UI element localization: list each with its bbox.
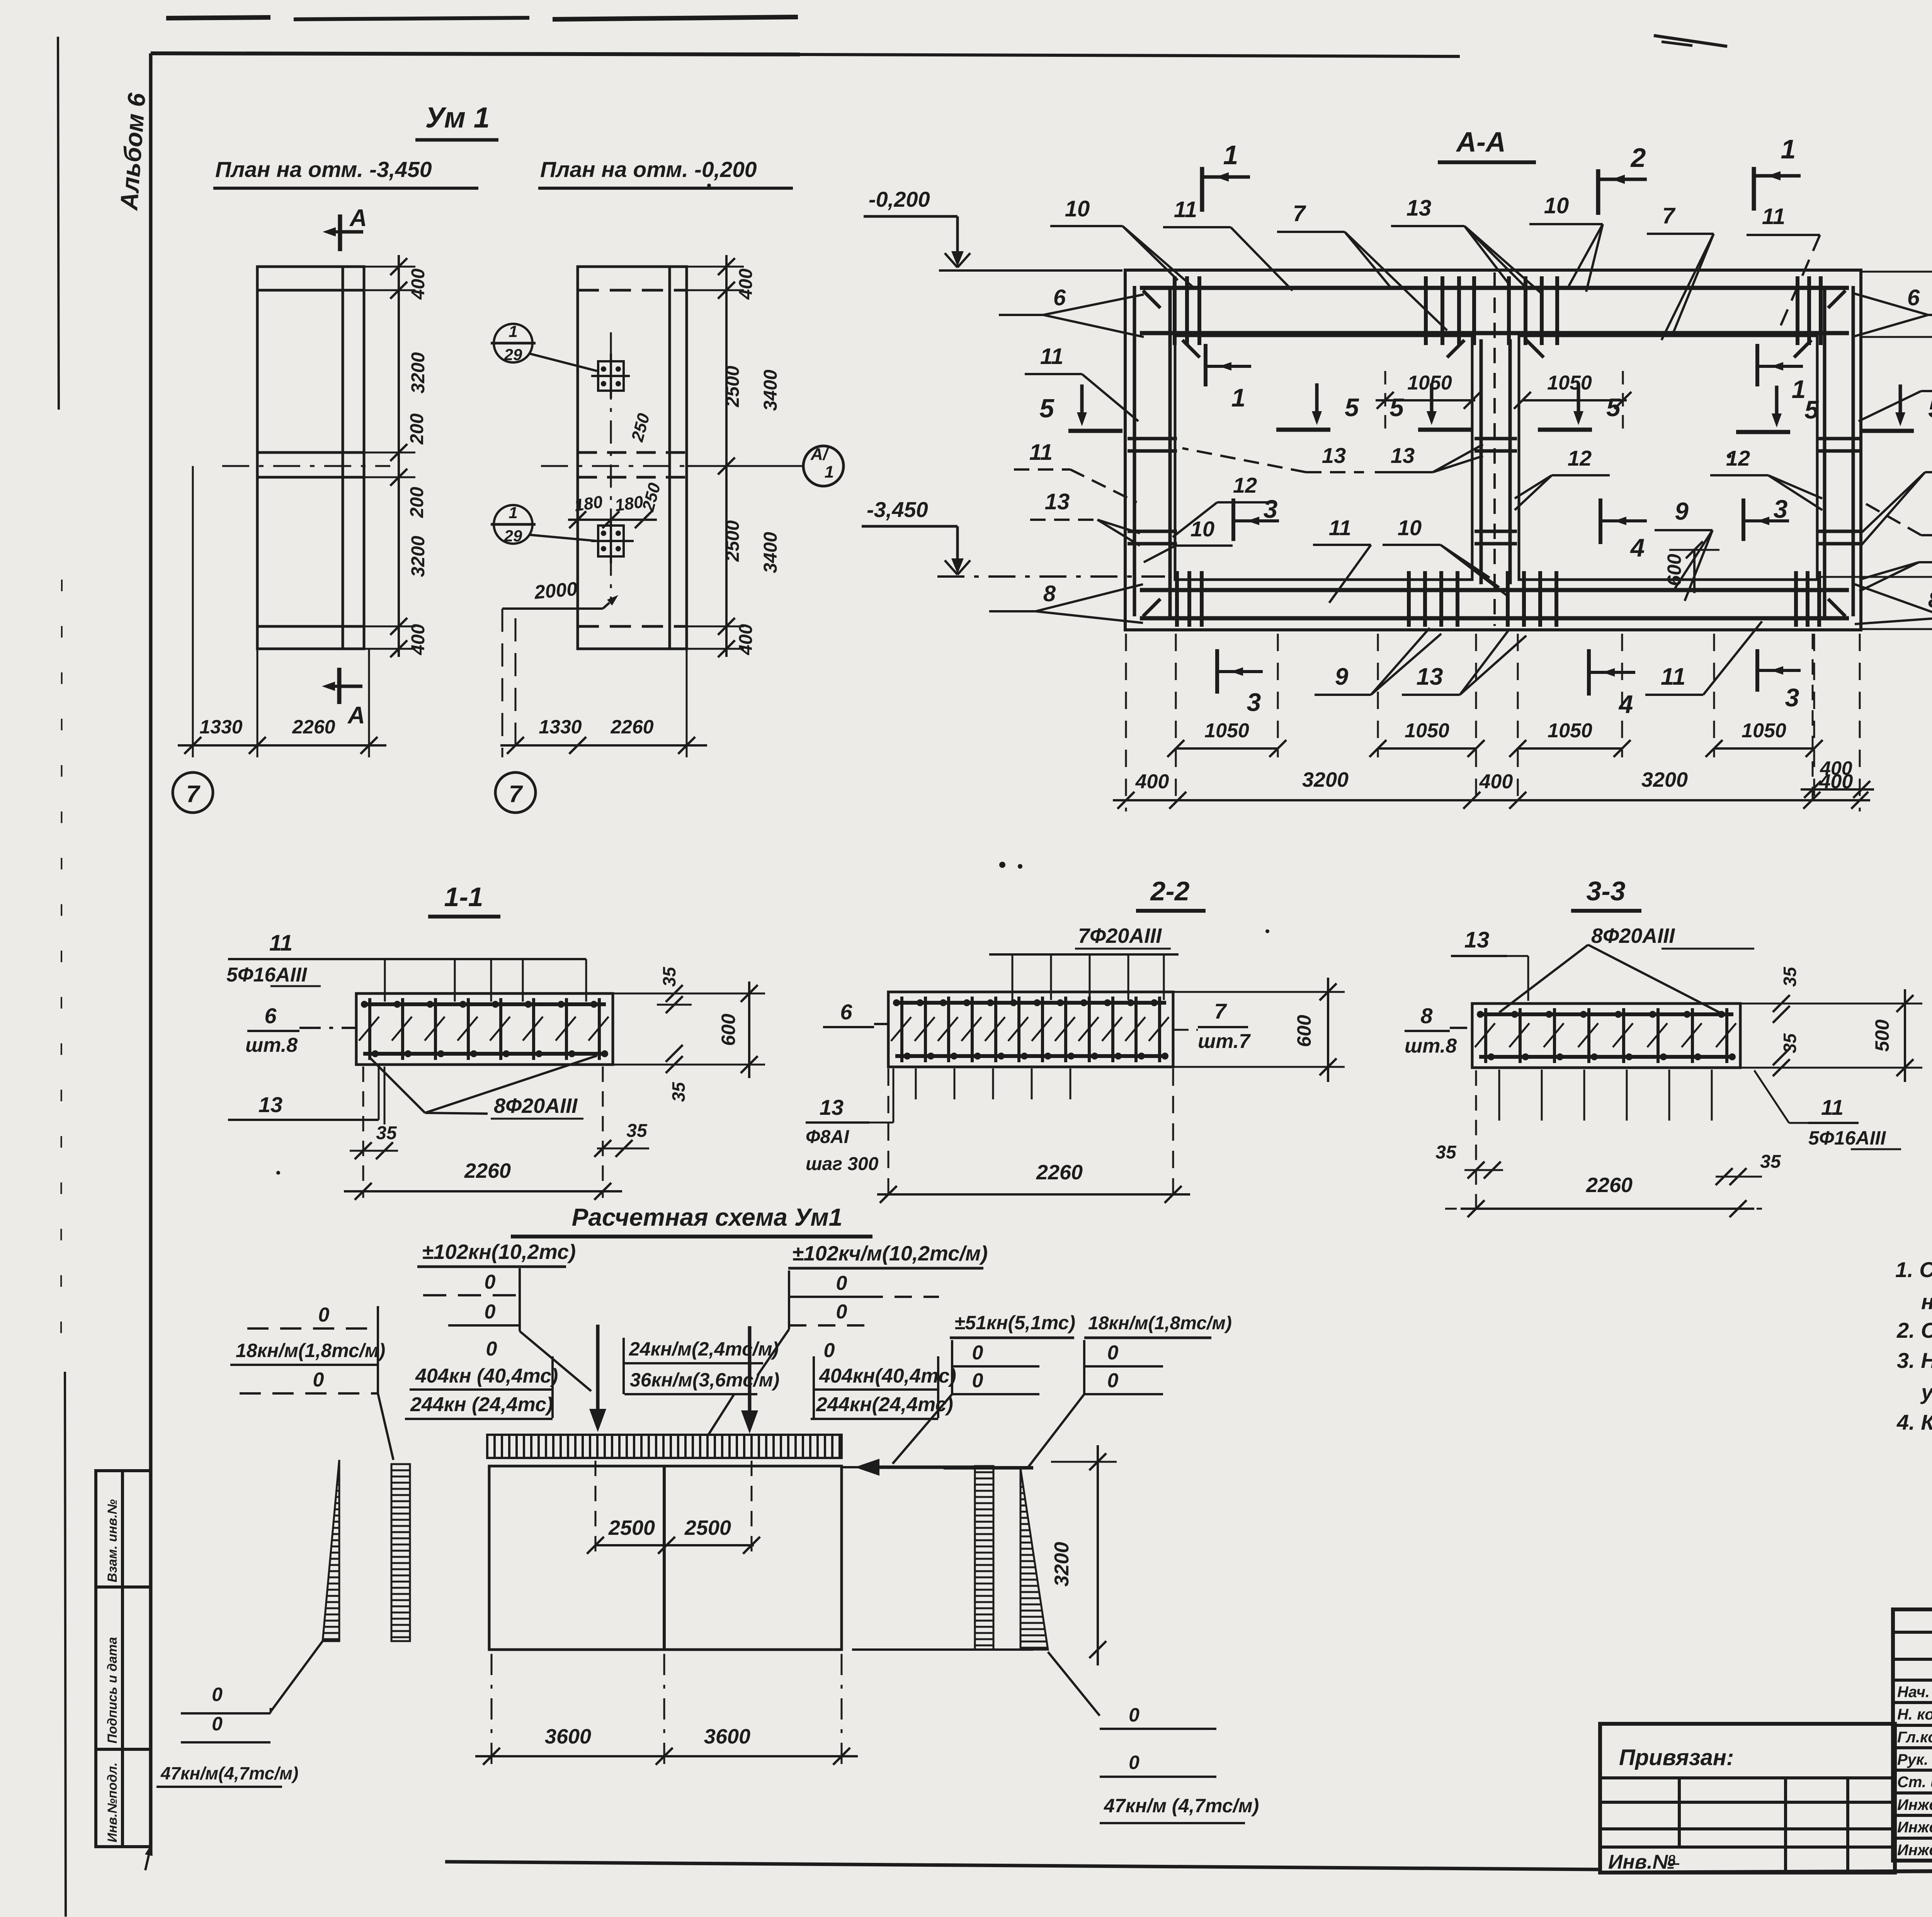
svg-text:3: 3 bbox=[1785, 683, 1799, 712]
dim 35 right 3-3 bbox=[1716, 1152, 1781, 1185]
svg-text:Инженер: Инженер bbox=[1897, 1842, 1932, 1859]
left plan dim 200 a bbox=[407, 413, 427, 445]
svg-text:0: 0 bbox=[212, 1713, 223, 1735]
svg-text:18кн/м(1,8тс/м): 18кн/м(1,8тс/м) bbox=[236, 1340, 385, 1361]
dim 35 left 1-1 bbox=[350, 1067, 398, 1198]
svg-text:5: 5 bbox=[1928, 394, 1932, 423]
flag 1 left opening bbox=[1206, 344, 1251, 412]
right plan dim 250 upper bbox=[628, 411, 654, 444]
scan smudge top bbox=[1654, 36, 1727, 46]
svg-text:4: 4 bbox=[1630, 533, 1645, 562]
svg-text:10: 10 bbox=[1065, 196, 1090, 221]
section flag 1 left top bbox=[1202, 140, 1250, 212]
sig table names bbox=[1897, 1682, 1932, 1859]
right triangle load bbox=[1020, 1468, 1048, 1650]
svg-text:План на отм. -3,450: План на отм. -3,450 bbox=[215, 157, 432, 182]
svg-text:3400: 3400 bbox=[760, 369, 781, 411]
callout 11 right lower bbox=[1863, 502, 1932, 535]
stamp box vzam inv bbox=[96, 1471, 151, 1587]
section 1-1 cage bbox=[356, 993, 613, 1065]
svg-text:Гл.констр: Гл.констр bbox=[1897, 1729, 1932, 1746]
left plan dim 200 b bbox=[407, 487, 427, 518]
dim 3600 3600 bbox=[475, 1654, 858, 1770]
left plan bottom strip line bbox=[257, 625, 364, 628]
label 8f20AIII 1-1 bbox=[370, 1056, 597, 1119]
section flag 1 right top bbox=[1754, 134, 1801, 211]
right 102 ladder bbox=[757, 1271, 939, 1376]
callout 8 left bbox=[989, 581, 1143, 623]
sig table top rows bbox=[1893, 1632, 1932, 1680]
load label 18kn right bbox=[1084, 1313, 1232, 1338]
title 1-1 bbox=[428, 882, 500, 917]
svg-text:35: 35 bbox=[1780, 1033, 1800, 1053]
callout 12 right bbox=[1710, 446, 1822, 510]
right plan dim 2500 lower bbox=[723, 520, 743, 562]
svg-text:13: 13 bbox=[820, 1095, 844, 1119]
svg-text:7: 7 bbox=[186, 781, 201, 808]
dim 2260 3-3 bbox=[1445, 1174, 1762, 1217]
load label 24kn mid bbox=[624, 1338, 779, 1394]
callout 10 bottom mid bbox=[1383, 515, 1509, 597]
svg-text:5: 5 bbox=[1039, 394, 1054, 423]
svg-text:3200: 3200 bbox=[408, 352, 429, 393]
svg-text:1330: 1330 bbox=[539, 716, 582, 738]
svg-text:35: 35 bbox=[668, 1082, 689, 1102]
detail bubble 1/29 upper bbox=[491, 322, 597, 371]
force arrow left bbox=[589, 1325, 606, 1432]
anchor detail upper bbox=[591, 354, 630, 398]
svg-text:11: 11 bbox=[1029, 440, 1053, 465]
svg-text:11: 11 bbox=[1040, 344, 1063, 369]
left plan dim 3200 lower bbox=[408, 536, 429, 577]
callout 7 top right bbox=[1647, 203, 1714, 340]
svg-text:11: 11 bbox=[1174, 197, 1197, 222]
note 3 line 2 bbox=[1920, 1380, 1932, 1408]
detail bubble 1/29 lower bbox=[491, 503, 597, 545]
svg-text:13: 13 bbox=[1464, 927, 1490, 953]
left plan axis circle 7 bbox=[173, 772, 213, 813]
flag 5 center left bbox=[1389, 383, 1472, 430]
callout 7 top bbox=[1277, 201, 1447, 330]
flag 3 below right bbox=[1757, 649, 1801, 712]
right plan centerline vertical bbox=[610, 332, 612, 603]
svg-text:244кн(24,4тс): 244кн(24,4тс) bbox=[816, 1393, 953, 1416]
svg-text:5: 5 bbox=[1345, 393, 1359, 422]
svg-text:1. Схемы расположения конструк: 1. Схемы расположения конструктивных эле… bbox=[1895, 1257, 1932, 1282]
svg-text:400: 400 bbox=[408, 269, 429, 300]
svg-text:600: 600 bbox=[1663, 554, 1685, 586]
dim 400 mid bbox=[1479, 771, 1513, 793]
right wall bars bbox=[1825, 286, 1853, 616]
svg-text:6: 6 bbox=[264, 1004, 277, 1028]
svg-text:8: 8 bbox=[1043, 581, 1056, 606]
section 3-3 cage bbox=[1472, 1004, 1740, 1068]
svg-text:2260: 2260 bbox=[1036, 1161, 1083, 1184]
frame top border bbox=[151, 17, 1460, 56]
dim 35 right 1-1 bbox=[594, 1067, 649, 1198]
svg-text:8Ф20АIII: 8Ф20АIII bbox=[1591, 924, 1675, 947]
svg-text:47кн/м(4,7тс/м): 47кн/м(4,7тс/м) bbox=[160, 1763, 298, 1783]
center wall bars bbox=[1481, 272, 1510, 626]
callout 11 top right bbox=[1747, 204, 1820, 333]
stamp box inv no podl bbox=[96, 1749, 151, 1847]
load label 18kn left bbox=[230, 1304, 393, 1460]
callout 10 top left bbox=[1050, 196, 1194, 288]
flag 4 right opening bbox=[1600, 498, 1647, 562]
svg-text:10: 10 bbox=[1190, 517, 1214, 541]
note 2 bbox=[1896, 1318, 1932, 1342]
privyazan grid cols bbox=[1679, 1778, 1848, 1873]
left plan dim 400 bottom bbox=[408, 624, 429, 655]
svg-text:1: 1 bbox=[1231, 383, 1246, 412]
svg-text:5: 5 bbox=[1389, 393, 1404, 422]
left plan dim 1330 bbox=[199, 716, 242, 738]
svg-text:400: 400 bbox=[736, 624, 756, 655]
left plan mid lines bbox=[257, 452, 364, 477]
svg-text:9: 9 bbox=[1675, 497, 1689, 525]
dim 35 bot 3-3 bbox=[1740, 1033, 1816, 1076]
svg-text:2260: 2260 bbox=[292, 716, 335, 738]
dim 3200 right bbox=[1051, 1445, 1117, 1665]
svg-text:2-2: 2-2 bbox=[1150, 876, 1189, 906]
beam middle line bbox=[663, 1466, 666, 1650]
svg-text:3200: 3200 bbox=[408, 536, 429, 577]
svg-text:Подпись и дата: Подпись и дата bbox=[105, 1637, 120, 1744]
callout 10 right bbox=[1859, 532, 1932, 591]
svg-text:Н. контр.: Н. контр. bbox=[1897, 1706, 1932, 1723]
right plan mid dashed lines bbox=[578, 452, 687, 477]
dim 600 1-1 bbox=[613, 981, 765, 1078]
svg-text:1050: 1050 bbox=[1742, 720, 1786, 742]
title plan -3,450 bbox=[213, 157, 478, 188]
callout 13 below bbox=[1402, 630, 1526, 695]
right plan bottom strip dashed bbox=[578, 625, 687, 628]
right plan axis circle 7 bbox=[495, 772, 536, 813]
svg-text:0: 0 bbox=[485, 1271, 496, 1293]
dim 35 bottom 1-1 bbox=[666, 1045, 689, 1102]
scan edge line left bbox=[58, 37, 66, 1917]
svg-text:3200: 3200 bbox=[1051, 1542, 1073, 1587]
svg-text:Привязан:: Привязан: bbox=[1619, 1745, 1734, 1770]
svg-text:2260: 2260 bbox=[610, 716, 653, 738]
rebar pos9 bottom bar 1 bbox=[1140, 588, 1849, 592]
svg-text:400: 400 bbox=[1135, 771, 1169, 793]
svg-text:5: 5 bbox=[1606, 393, 1621, 422]
stamp box podpis i data bbox=[96, 1587, 151, 1749]
section flag 2 top bbox=[1598, 143, 1647, 215]
callout 13 left opening bbox=[1182, 443, 1364, 472]
svg-text:0: 0 bbox=[972, 1342, 983, 1364]
svg-text:0: 0 bbox=[212, 1684, 223, 1705]
svg-text:4. Каркасы поз. 10 устанавли: 4. Каркасы поз. 10 устанавливать вилками… bbox=[1896, 1410, 1932, 1434]
svg-text:13: 13 bbox=[1322, 443, 1346, 468]
svg-text:1: 1 bbox=[1781, 134, 1796, 164]
note 3 line 1 bbox=[1897, 1348, 1932, 1373]
svg-text:±102кч/м(10,2тс/м): ±102кч/м(10,2тс/м) bbox=[792, 1242, 988, 1265]
svg-text:36кн/м(3,6тс/м): 36кн/м(3,6тс/м) bbox=[630, 1369, 779, 1391]
right plan dim 2260 bbox=[610, 716, 653, 738]
svg-text:5Ф16АIII: 5Ф16АIII bbox=[1808, 1127, 1886, 1149]
flag 5 right opening bbox=[1736, 386, 1819, 432]
load label 102kn right bbox=[788, 1242, 988, 1268]
rebar corner hooks bbox=[1143, 291, 1845, 616]
svg-text:Ф8АI: Ф8АI bbox=[806, 1127, 850, 1147]
svg-text:35: 35 bbox=[376, 1123, 397, 1143]
svg-text:1330: 1330 bbox=[199, 716, 242, 738]
dim 600 right opening bbox=[1663, 541, 1719, 593]
svg-text:Инв.№: Инв.№ bbox=[1608, 1851, 1675, 1873]
title Um1 bbox=[415, 101, 498, 140]
label 5f16AIII 1-1 bbox=[226, 964, 321, 986]
svg-text:0: 0 bbox=[1107, 1369, 1119, 1392]
callout 6 left bbox=[999, 285, 1144, 337]
frame left border bbox=[145, 53, 153, 1870]
svg-text:8: 8 bbox=[1420, 1004, 1433, 1028]
svg-text:Ст. инж.: Ст. инж. bbox=[1897, 1774, 1932, 1791]
right plan dim 1330 bbox=[539, 716, 582, 738]
callout 13 3-3 bbox=[1451, 927, 1528, 1001]
callout 11 bottom mid bbox=[1313, 515, 1371, 603]
svg-text:2500: 2500 bbox=[723, 366, 743, 407]
privyazan text bbox=[1619, 1745, 1734, 1770]
force arrow mid bbox=[741, 1326, 758, 1434]
svg-text:2: 2 bbox=[1630, 143, 1646, 173]
svg-text:47кн/м (4,7тс/м): 47кн/м (4,7тс/м) bbox=[1104, 1795, 1259, 1817]
svg-text:8Ф20АIII: 8Ф20АIII bbox=[494, 1094, 578, 1118]
dim 500 3-3 bbox=[1740, 989, 1922, 1082]
svg-text:Инженер: Инженер bbox=[1897, 1819, 1932, 1836]
svg-text:35: 35 bbox=[1435, 1142, 1457, 1163]
stirrup clusters bottom beam bbox=[1177, 571, 1819, 627]
label 8f20AIII 3-3 bbox=[1499, 924, 1754, 1012]
privyazan header line bbox=[1600, 1776, 1895, 1779]
right strips baseline bbox=[852, 1468, 1033, 1650]
dim 2500 2500 bbox=[587, 1461, 760, 1557]
svg-text:9: 9 bbox=[1335, 663, 1349, 690]
dim 400 right bbox=[1819, 771, 1853, 793]
svg-text:1050: 1050 bbox=[1204, 720, 1249, 742]
album 6 vertical text bbox=[115, 92, 151, 212]
svg-text:±102кн(10,2тс): ±102кн(10,2тс) bbox=[422, 1240, 576, 1264]
A-A right dim extensions bbox=[1817, 272, 1932, 629]
left plan centerline bbox=[222, 465, 390, 467]
load label 404kn right bbox=[814, 1356, 956, 1418]
51kn ladder bbox=[893, 1340, 1039, 1464]
svg-text:8: 8 bbox=[1928, 587, 1932, 612]
svg-text:1: 1 bbox=[509, 503, 517, 522]
note 1 line 2 bbox=[1921, 1289, 1932, 1314]
callout 13 top bbox=[1391, 196, 1542, 294]
svg-text:А: А bbox=[349, 205, 367, 231]
svg-text:180: 180 bbox=[573, 492, 604, 515]
svg-text:2000: 2000 bbox=[533, 578, 578, 603]
callout 6 sht8 1-1 bbox=[245, 1004, 357, 1056]
label 7f20AIII 2-2 bbox=[989, 924, 1179, 1000]
svg-text:2260: 2260 bbox=[1586, 1174, 1633, 1197]
svg-text:шт.8: шт.8 bbox=[1405, 1035, 1457, 1057]
svg-text:13: 13 bbox=[1391, 443, 1415, 468]
right plan dim 2500 upper bbox=[723, 366, 743, 407]
title 2-2 bbox=[1136, 876, 1206, 911]
flag 3 right opening bbox=[1743, 495, 1789, 541]
right plan dim 3400 lower bbox=[760, 532, 781, 573]
svg-text:0: 0 bbox=[824, 1339, 835, 1362]
svg-text:0: 0 bbox=[836, 1301, 847, 1323]
dim 2260 1-1 bbox=[344, 1159, 622, 1200]
callout 13 1-1 bbox=[228, 1067, 379, 1120]
svg-text:3400: 3400 bbox=[760, 532, 781, 573]
svg-text:План на отм. -0,200: План на отм. -0,200 bbox=[540, 157, 757, 182]
title 3-3 bbox=[1571, 876, 1641, 911]
svg-text:12: 12 bbox=[1568, 446, 1592, 470]
right plan centerline bbox=[541, 465, 804, 467]
svg-text:Взам. инв.№: Взам. инв.№ bbox=[105, 1499, 120, 1582]
callout 11 top bbox=[1163, 197, 1293, 291]
svg-text:7: 7 bbox=[1214, 999, 1227, 1023]
right rect load strip bbox=[975, 1466, 993, 1650]
dim row 1050 below A-A bbox=[1167, 720, 1823, 757]
svg-text:Расчетная схема Ум1: Расчетная схема Ум1 bbox=[572, 1203, 843, 1231]
flag 5 right bbox=[1860, 384, 1932, 431]
sig table outline bbox=[1893, 1609, 1932, 1861]
svg-text:Ум 1: Ум 1 bbox=[425, 101, 490, 134]
svg-text:учетом коэффициента надежнос: учетом коэффициента надежности по назнач… bbox=[1920, 1380, 1932, 1408]
right plan dim 180 180 bbox=[568, 492, 657, 528]
A-A outer outline bbox=[1125, 270, 1861, 630]
svg-text:400: 400 bbox=[1820, 757, 1852, 779]
title A-A bbox=[1438, 127, 1536, 162]
svg-text:3200: 3200 bbox=[1641, 768, 1688, 791]
svg-text:±51кн(5,1тс): ±51кн(5,1тс) bbox=[954, 1312, 1075, 1334]
left plan dim 3200 upper bbox=[408, 352, 429, 393]
3-3 bottom bar drops bbox=[1499, 1070, 1712, 1121]
svg-text:1050: 1050 bbox=[1405, 720, 1449, 742]
left rect load strip bbox=[391, 1464, 410, 1641]
stirrup clusters top beam bbox=[1175, 276, 1821, 345]
svg-text:1050: 1050 bbox=[1547, 372, 1592, 394]
svg-text:1-1: 1-1 bbox=[444, 882, 483, 912]
callout 7 sht7 2-2 bbox=[1173, 999, 1251, 1053]
svg-text:Нач. отд: Нач. отд bbox=[1897, 1684, 1932, 1701]
svg-text:4: 4 bbox=[1618, 690, 1633, 718]
svg-text:13: 13 bbox=[1045, 489, 1070, 514]
callout 10 top right bbox=[1529, 193, 1603, 292]
svg-text:1: 1 bbox=[509, 322, 517, 340]
callout 6 right bbox=[1855, 285, 1932, 336]
svg-text:0: 0 bbox=[836, 1272, 847, 1294]
privyazan table outline bbox=[1600, 1724, 1895, 1873]
callout 6 2-2 bbox=[823, 1000, 889, 1027]
dim 1050 left opening bbox=[1376, 371, 1481, 429]
svg-text:10: 10 bbox=[1544, 193, 1569, 218]
flag 4 below bbox=[1589, 649, 1635, 718]
dim 1050 right opening bbox=[1514, 371, 1631, 429]
dim 2260 2-2 bbox=[877, 1068, 1190, 1206]
load label 102kn left bbox=[417, 1240, 576, 1267]
callout 11 top 1-1 bbox=[228, 930, 586, 1002]
elevation mark -3.450 bbox=[862, 497, 1165, 577]
note 1 line 1 bbox=[1895, 1257, 1932, 1282]
callout 11 left lower bbox=[1014, 440, 1137, 502]
flag 1 right opening bbox=[1757, 344, 1806, 403]
callout 9 below bbox=[1315, 628, 1441, 695]
left 102 ladder bbox=[423, 1268, 591, 1391]
svg-text:Инв.№подл.: Инв.№подл. bbox=[105, 1762, 120, 1842]
svg-text:шт.8: шт.8 bbox=[245, 1034, 298, 1056]
flag 3 below left bbox=[1217, 649, 1263, 716]
callout 8 right bbox=[1855, 584, 1932, 624]
svg-text:3. На расчетных схемах прив: 3. На расчетных схемах приведены расчетн… bbox=[1897, 1348, 1932, 1373]
dim extension verticals below bbox=[1176, 634, 1814, 808]
svg-text:0: 0 bbox=[1129, 1704, 1139, 1726]
anchor detail lower bbox=[591, 518, 634, 563]
callout 12 left opening bbox=[1173, 473, 1275, 537]
callout 12 center bbox=[1515, 446, 1610, 510]
left plan top strip line bbox=[257, 289, 364, 292]
svg-text:шт.7: шт.7 bbox=[1198, 1030, 1251, 1053]
svg-text:1: 1 bbox=[1223, 140, 1238, 170]
svg-text:А-А: А-А bbox=[1456, 127, 1506, 158]
callout 13 left bbox=[1030, 489, 1140, 546]
svg-text:А/: А/ bbox=[810, 445, 830, 464]
left wall bars bbox=[1134, 286, 1170, 616]
callout 11 left upper bbox=[1025, 344, 1138, 421]
beam outline bbox=[489, 1466, 842, 1650]
svg-text:29: 29 bbox=[504, 527, 522, 545]
svg-text:600: 600 bbox=[718, 1014, 739, 1046]
svg-text:5Ф16АIII: 5Ф16АIII bbox=[226, 964, 308, 986]
svg-text:7Ф20АIII: 7Ф20АIII bbox=[1078, 924, 1162, 947]
svg-text:Рук. гр.: Рук. гр. bbox=[1897, 1751, 1932, 1768]
rebar pos7 top bar 1 bbox=[1140, 286, 1849, 290]
callout 11 right upper bbox=[1859, 361, 1932, 421]
svg-text:400: 400 bbox=[408, 624, 429, 655]
dim 35 top 3-3 bbox=[1740, 966, 1816, 1023]
left triangle load bbox=[323, 1460, 339, 1641]
left plan dim 2260 bbox=[292, 716, 335, 738]
dim 3200 left bbox=[1302, 768, 1349, 791]
svg-text:400: 400 bbox=[1479, 771, 1513, 793]
svg-text:3: 3 bbox=[1247, 688, 1261, 716]
svg-text:2500: 2500 bbox=[684, 1516, 731, 1539]
svg-text:29: 29 bbox=[504, 345, 522, 364]
svg-text:10: 10 bbox=[1398, 515, 1422, 540]
frame bottom border bbox=[445, 1862, 1932, 1873]
svg-text:13: 13 bbox=[259, 1092, 282, 1117]
svg-text:2. Спецификацию смотрите на: 2. Спецификацию смотрите на листе 30. bbox=[1896, 1318, 1932, 1342]
18kn right ladder bbox=[1028, 1340, 1163, 1468]
right plan dim 400 top bbox=[736, 269, 756, 300]
svg-text:35: 35 bbox=[1780, 966, 1800, 987]
flag 3 left opening bbox=[1233, 495, 1279, 541]
wall tie bars bbox=[1128, 439, 1859, 544]
svg-text:600: 600 bbox=[1293, 1015, 1315, 1047]
left plan bottom dim line bbox=[178, 466, 386, 757]
load label 51kn bbox=[950, 1312, 1075, 1338]
right plan outline bbox=[578, 267, 687, 649]
A-A left opening bbox=[1175, 336, 1472, 580]
svg-text:1: 1 bbox=[825, 463, 834, 481]
beam top line extension bbox=[842, 1466, 1033, 1468]
svg-text:18кн/м(1,8тс/м): 18кн/м(1,8тс/м) bbox=[1088, 1313, 1232, 1334]
svg-text:-3,450: -3,450 bbox=[867, 497, 928, 522]
svg-text:404кн(40,4тс): 404кн(40,4тс) bbox=[819, 1365, 956, 1387]
callout 10 left opening bbox=[1144, 517, 1233, 562]
svg-text:-0,200: -0,200 bbox=[869, 187, 930, 211]
scan dots bbox=[276, 184, 1932, 1175]
svg-text:404кн (40,4тс): 404кн (40,4тс) bbox=[415, 1365, 558, 1387]
dim 400 left bbox=[1135, 771, 1169, 793]
